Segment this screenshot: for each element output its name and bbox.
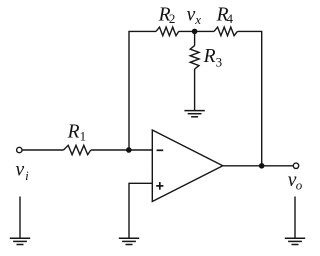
wire feedback left vertical and top to R2 [129, 31, 156, 150]
ground under vo stub [285, 238, 305, 244]
label vx [187, 4, 202, 27]
svg-text:v: v [16, 160, 25, 181]
wire vi reference stub to ground [19, 197, 21, 238]
wire non-inverting input [129, 183, 152, 237]
svg-text:3: 3 [216, 55, 223, 70]
label vo [288, 170, 303, 192]
label R1 [67, 122, 87, 144]
svg-text:2: 2 [169, 11, 176, 26]
resistor R2 [156, 27, 179, 36]
label R4 [216, 4, 234, 26]
svg-text:4: 4 [227, 11, 234, 26]
ground under R3 [184, 111, 204, 117]
resistor R3 [190, 46, 199, 69]
label vi [16, 160, 30, 183]
plus sign [156, 185, 163, 187]
node vx junction dot [192, 29, 198, 35]
svg-text:i: i [25, 168, 29, 183]
junction dot output node [259, 163, 265, 169]
wire R2 to node vx [179, 30, 195, 32]
svg-text:1: 1 [80, 128, 87, 143]
svg-text:R: R [203, 46, 216, 67]
wire R3 to ground [194, 69, 196, 110]
wire node vx to R4 [195, 30, 214, 32]
ground at non-inverting input [119, 238, 139, 244]
wire R4 to right corner down to output node [237, 31, 261, 165]
minus sign [157, 149, 164, 151]
resistor R4 [214, 27, 237, 36]
svg-text:o: o [296, 178, 303, 193]
ground under vi stub [10, 238, 30, 244]
wire vo reference stub to ground [294, 197, 296, 238]
terminal vo open circle [293, 163, 298, 168]
wire node vx down to R3 [194, 31, 196, 45]
wire R1 to inverting input [91, 149, 153, 151]
wire vi to R1 [22, 149, 63, 151]
label R2 [158, 4, 176, 26]
junction dot inverting node [126, 147, 132, 153]
label R3 [203, 46, 223, 70]
svg-text:x: x [194, 12, 201, 27]
wire output node to terminal [262, 165, 293, 167]
wire op-amp output to node [223, 165, 262, 167]
svg-text:R: R [67, 122, 80, 143]
terminal vi open circle [17, 147, 22, 152]
resistor R1 [64, 145, 91, 154]
op-amp U1 [152, 130, 223, 202]
